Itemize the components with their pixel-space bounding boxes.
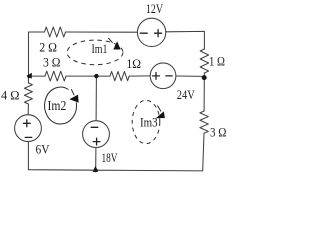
wire 12V to top-right corner bbox=[166, 31, 205, 49]
junction node 18V-bottom bbox=[93, 166, 99, 172]
resistor 4ohm left vertical bbox=[24, 83, 32, 104]
wire 4ohm to left node bbox=[27, 76, 29, 83]
mesh loop Im2 arc bbox=[45, 87, 77, 124]
svg-text:24V: 24V bbox=[177, 87, 195, 102]
resistor 1ohm right vertical bbox=[200, 49, 208, 73]
junction node right-middle bbox=[202, 75, 207, 80]
svg-text:4 Ω: 4 Ω bbox=[1, 87, 20, 102]
wire 18V branch top bbox=[95, 76, 97, 121]
mesh loop Im2 arrowhead bbox=[69, 95, 78, 103]
wire bottom-left bbox=[28, 142, 95, 171]
svg-text:18V: 18V bbox=[102, 151, 118, 165]
svg-text:2 Ω: 2 Ω bbox=[39, 40, 57, 55]
svg-text:12V: 12V bbox=[146, 2, 163, 16]
12V plus sign bbox=[155, 30, 162, 37]
svg-text:Im1: Im1 bbox=[92, 41, 108, 56]
voltage source U12 12V circle bbox=[137, 18, 165, 46]
wire 18V bottom to bottom wire bbox=[95, 148, 97, 171]
wire right edge down to 3-ohm bbox=[203, 78, 205, 111]
wire 3ohm to bottom-right corner bbox=[96, 133, 204, 171]
18V plus sign bbox=[93, 138, 100, 145]
wire top middle to 12V source bbox=[66, 31, 138, 33]
mesh loop Im1 dashed ellipse bbox=[67, 38, 123, 65]
6V minus sign bbox=[25, 136, 32, 138]
voltage source U18 18V circle bbox=[83, 121, 110, 148]
wire 1ohm right to middle junction bbox=[203, 73, 205, 78]
voltage source U24 24V circle bbox=[150, 63, 176, 89]
wire 6V top to 4-ohm bbox=[27, 104, 29, 115]
resistor 3ohm right vertical bbox=[200, 111, 208, 133]
18V minus sign bbox=[91, 126, 98, 128]
12V minus sign bbox=[140, 32, 147, 34]
wire 3ohm to 1ohm middle bbox=[66, 75, 110, 77]
wire 24V to right edge bbox=[176, 75, 204, 77]
mesh loop Im3 dashed ellipse bbox=[132, 100, 161, 143]
resistor 3ohm horizontal bbox=[45, 71, 66, 81]
24V minus sign bbox=[166, 75, 172, 77]
svg-text:6V: 6V bbox=[36, 141, 51, 156]
resistor 2ohm bbox=[45, 27, 66, 37]
svg-text:Im2: Im2 bbox=[48, 98, 67, 113]
svg-text:3 Ω: 3 Ω bbox=[43, 55, 61, 70]
wire top-left from corner to 2-ohm bbox=[29, 32, 45, 76]
6V plus sign bbox=[23, 120, 30, 127]
junction node 18V-top bbox=[94, 74, 98, 78]
svg-text:1 Ω: 1 Ω bbox=[209, 53, 225, 68]
mesh loop Im1 arrowhead bbox=[113, 41, 120, 49]
svg-text:Im3: Im3 bbox=[140, 116, 158, 130]
voltage source U6 6V circle bbox=[15, 115, 42, 142]
wire middle-left: left node to 3-ohm bbox=[29, 75, 46, 77]
svg-text:3 Ω: 3 Ω bbox=[210, 124, 227, 139]
mesh loop Im3 arrowhead bbox=[156, 111, 165, 118]
junction node left-middle bbox=[26, 73, 32, 79]
24V plus sign bbox=[153, 73, 160, 80]
svg-text:1Ω: 1Ω bbox=[126, 56, 141, 71]
resistor 1ohm middle horizontal bbox=[110, 72, 129, 81]
wire 1ohm to 24V source bbox=[129, 75, 150, 77]
